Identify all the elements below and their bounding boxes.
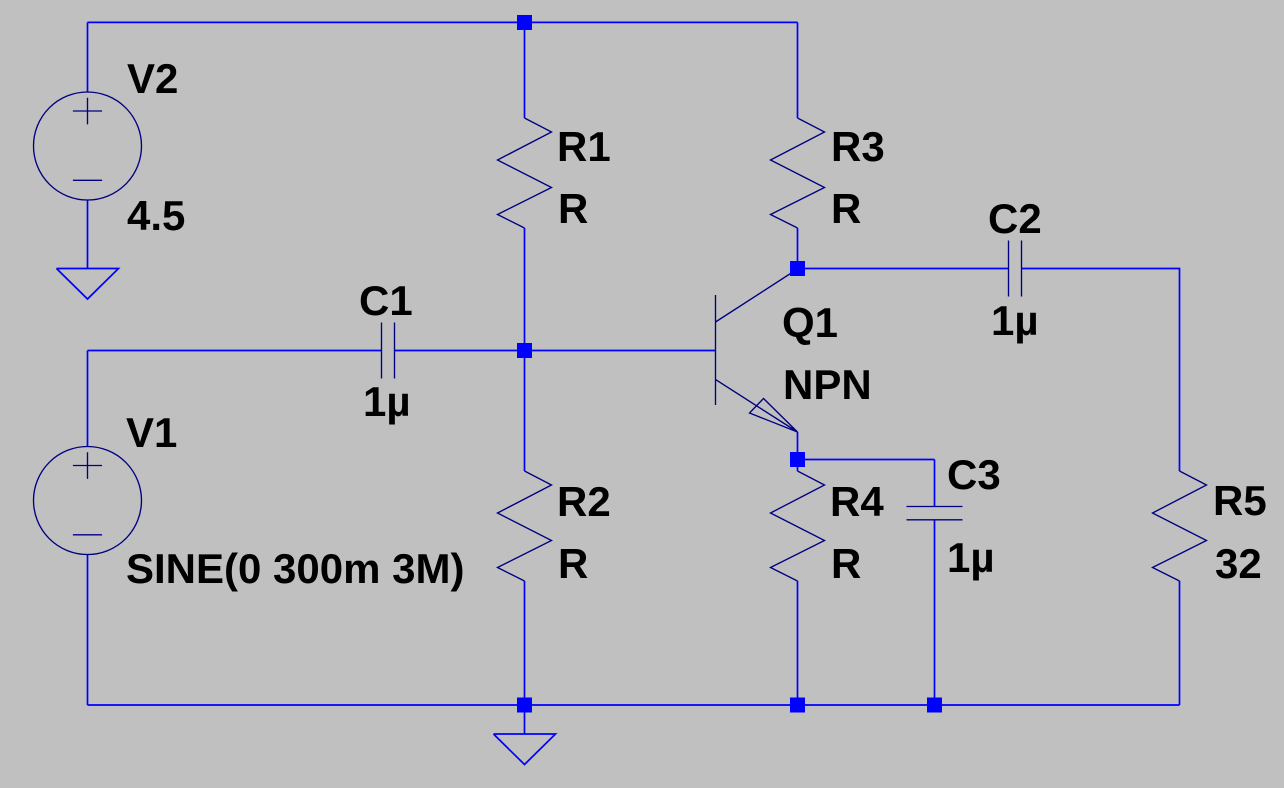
svg-text:SINE(0 300m 3M): SINE(0 300m 3M) — [126, 545, 464, 592]
svg-text:C1: C1 — [359, 277, 413, 324]
wire R1 top lead — [524, 22, 526, 118]
wire emitter to node — [797, 432, 799, 460]
resistor R2 body — [498, 471, 552, 581]
svg-text:V2: V2 — [127, 55, 178, 102]
capacitor C3 plates — [907, 507, 963, 520]
wire collector node to C2 — [798, 268, 1009, 270]
svg-text:1µ: 1µ — [363, 378, 411, 425]
wire R2 bottom lead — [524, 581, 526, 705]
node input / base — [517, 343, 532, 358]
wire C2 to R5 top — [1022, 269, 1180, 472]
node bottom R2/ground — [517, 698, 532, 713]
svg-text:C3: C3 — [947, 451, 1001, 498]
resistor R5 body — [1153, 471, 1207, 581]
svg-text:1µ: 1µ — [991, 297, 1039, 344]
wire R4 bottom lead — [797, 581, 799, 705]
svg-text:R: R — [831, 185, 861, 232]
wire R5 bottom lead — [1179, 581, 1181, 705]
wire R3 bottom lead — [797, 228, 799, 269]
resistor R1 body — [498, 118, 552, 228]
svg-text:R: R — [558, 540, 588, 587]
svg-text:1µ: 1µ — [947, 534, 995, 581]
wire V1 bottom lead — [87, 555, 89, 706]
wire R1 bottom lead — [524, 228, 526, 351]
wire top rail — [88, 21, 798, 23]
svg-text:NPN: NPN — [783, 361, 872, 408]
svg-text:R: R — [831, 540, 861, 587]
transistor Q1 body — [716, 269, 798, 432]
wire R4 top lead — [797, 460, 799, 472]
wire V1 top lead — [87, 351, 89, 447]
svg-text:R3: R3 — [831, 123, 885, 170]
wire emitter node to C3 — [798, 459, 935, 461]
wire bottom rail — [88, 704, 1180, 706]
svg-text:R1: R1 — [557, 123, 611, 170]
svg-text:32: 32 — [1215, 540, 1262, 587]
voltage source V2 body — [34, 92, 142, 200]
capacitor C1 plates — [382, 323, 395, 379]
svg-text:R2: R2 — [557, 478, 611, 525]
ground main — [494, 734, 556, 765]
wire V2 top lead — [87, 22, 89, 92]
node emitter — [790, 452, 805, 467]
svg-text:R4: R4 — [830, 478, 884, 525]
wire input to C1 — [88, 350, 382, 352]
wire C1 to base — [395, 350, 716, 352]
wire C3 bottom lead — [934, 520, 936, 705]
voltage source V1 body — [34, 447, 142, 555]
svg-text:Q1: Q1 — [782, 299, 838, 346]
resistor R4 body — [771, 471, 825, 581]
svg-text:R: R — [558, 185, 588, 232]
svg-text:R5: R5 — [1213, 477, 1267, 524]
node top rail / R1 — [517, 15, 532, 30]
node collector — [790, 261, 805, 276]
wire R2 top lead — [524, 351, 526, 472]
wire C3 top lead — [934, 460, 936, 507]
wire ground stub bottom — [524, 705, 526, 734]
capacitor C2 plates — [1009, 241, 1022, 297]
node bottom R4 — [790, 698, 805, 713]
svg-text:4.5: 4.5 — [127, 192, 185, 239]
svg-text:C2: C2 — [988, 195, 1042, 242]
wire R3 top lead — [797, 22, 799, 118]
resistor R3 body — [771, 118, 825, 228]
svg-text:V1: V1 — [126, 409, 177, 456]
node bottom C3 — [927, 698, 942, 713]
ground for V2 — [57, 269, 119, 300]
wire V2 bottom to ground — [87, 200, 89, 269]
